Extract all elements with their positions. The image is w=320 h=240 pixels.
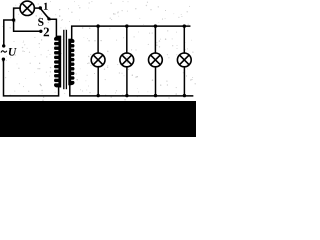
transformer T core bbox=[64, 30, 67, 89]
wire: lamp L4 stems bbox=[183, 26, 185, 53]
lamp L3 bbox=[149, 53, 163, 67]
wire: switch pivot to transformer primary top bbox=[49, 19, 60, 36]
junction dot top bus 2 bbox=[125, 24, 129, 28]
lamp L4 bbox=[177, 53, 191, 67]
wire: secondary top lead and top bus bbox=[72, 26, 190, 39]
label 2 (contact) bbox=[44, 28, 49, 37]
wire: node A left branch down to source bbox=[4, 20, 14, 45]
junction dot bottom bus 3 bbox=[154, 94, 157, 97]
transformer T primary winding bbox=[54, 37, 61, 88]
wire: lamp L3 stems bbox=[154, 26, 156, 53]
lamp L2 bbox=[120, 53, 134, 67]
wire: node A down to contact 2 bbox=[14, 20, 40, 31]
lamp EL (top left) bbox=[20, 1, 34, 15]
node A junction dot bbox=[12, 18, 16, 22]
junction dot top bus 1 bbox=[96, 24, 100, 28]
switch contact 2 dot bbox=[39, 30, 42, 33]
label ~ (AC) bbox=[1, 51, 7, 53]
junction dot top bus 3 bbox=[154, 24, 158, 28]
junction dot bottom bus 2 bbox=[125, 94, 128, 97]
lamp L1 bbox=[91, 53, 105, 67]
junction dot bottom bus 4 bbox=[183, 94, 186, 97]
source terminal dot (bottom) bbox=[2, 58, 5, 61]
switch pivot dot bbox=[47, 17, 50, 20]
wire: secondary bottom lead and bottom bus bbox=[70, 85, 193, 95]
source terminal dot (top) bbox=[2, 44, 5, 47]
wire: lamp L2 stems bbox=[126, 26, 128, 53]
wire: source bottom terminal down, bottom wire to primary lead bbox=[4, 61, 59, 96]
black bottom bar bbox=[0, 101, 196, 137]
junction dot bottom bus 1 bbox=[97, 94, 100, 97]
label U (source) bbox=[9, 48, 17, 56]
wire: lamp L1 stems bbox=[97, 26, 99, 53]
paper speckle noise bbox=[2, 1, 196, 101]
junction dot top bus 4 bbox=[183, 24, 187, 28]
wire: node A up to lamp EL bbox=[14, 8, 21, 20]
switch contact 1 dot bbox=[39, 6, 42, 9]
wire: lamp EL right side to contact 1 bbox=[34, 7, 39, 9]
transformer T secondary winding bbox=[68, 39, 74, 86]
switch blade S bbox=[41, 9, 49, 19]
label S (switch) bbox=[38, 18, 43, 26]
label 1 (contact) bbox=[44, 3, 48, 10]
